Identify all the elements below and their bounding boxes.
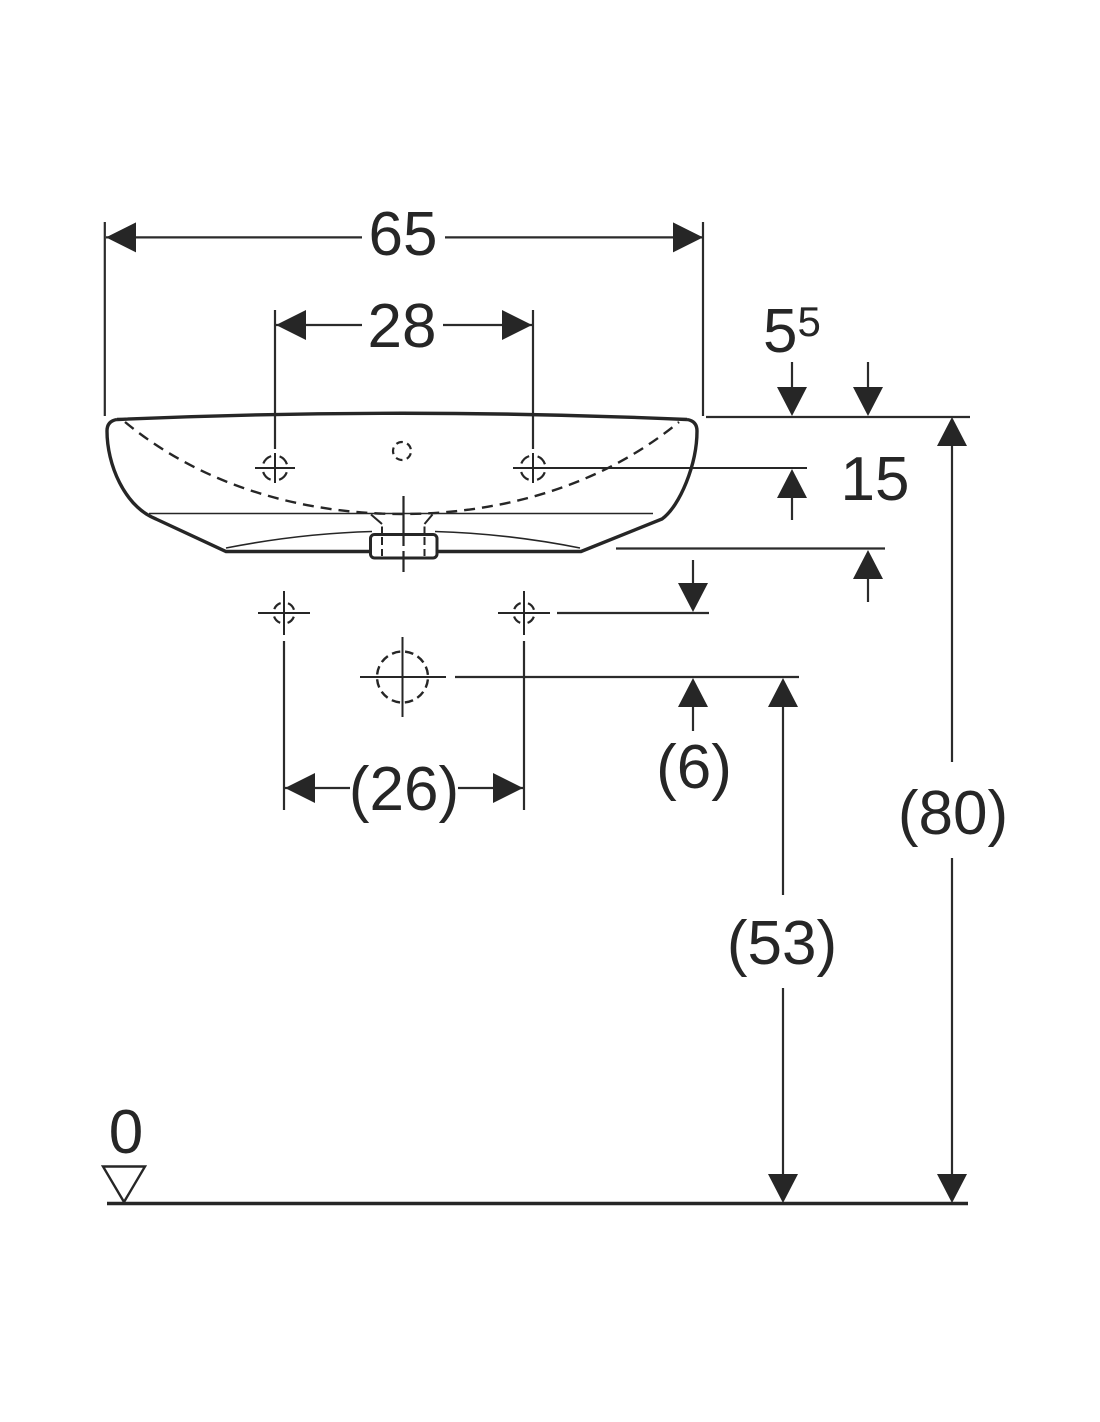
svg-text:(26): (26): [349, 755, 459, 824]
svg-text:15: 15: [841, 445, 910, 514]
svg-text:0: 0: [109, 1098, 143, 1167]
svg-text:28: 28: [368, 292, 437, 361]
svg-text:65: 65: [369, 200, 438, 269]
svg-text:(53): (53): [727, 909, 837, 978]
svg-text:(80): (80): [898, 779, 1008, 848]
svg-text:(6): (6): [656, 733, 732, 802]
